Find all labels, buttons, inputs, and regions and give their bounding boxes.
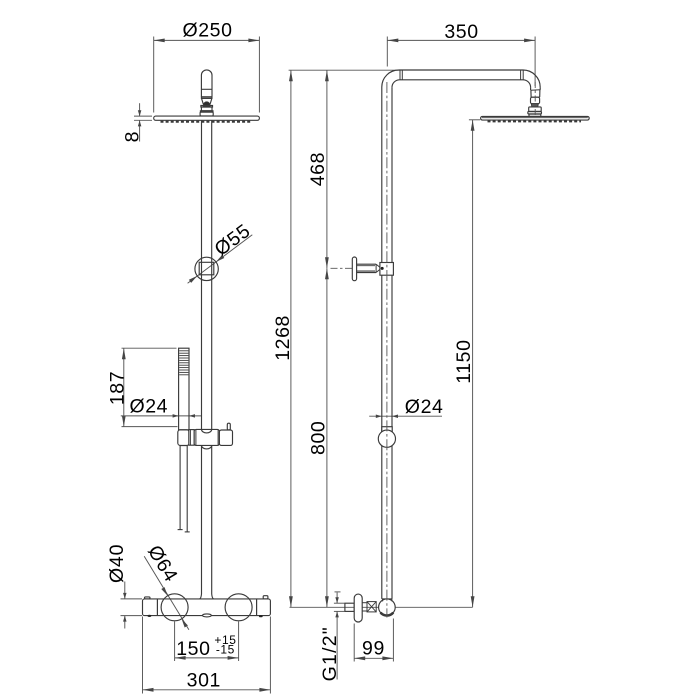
ball joint ball front: [203, 102, 210, 106]
wall arm elbow side: [382, 70, 399, 87]
dimension 99 line with arrows: [354, 657, 393, 659]
wall bracket flange side: [352, 257, 356, 281]
supply ball side: [379, 599, 396, 616]
svg-text:150: 150: [176, 638, 210, 660]
hand shower handle: [179, 348, 189, 430]
svg-text:1150: 1150: [453, 339, 475, 383]
column pipe front: [201, 120, 203, 594]
hand shower cone: [178, 430, 189, 446]
svg-text:468: 468: [307, 152, 329, 186]
svg-text:G1/2": G1/2": [319, 626, 341, 681]
svg-text:-15: -15: [216, 642, 235, 656]
slider knob front: [189, 430, 194, 446]
wall union circle front: [195, 257, 218, 280]
shower arm joint lines right: [520, 70, 522, 80]
shower head plate front: [154, 116, 260, 120]
svg-text:8: 8: [122, 131, 144, 142]
dimension Ø40 arrows: [124, 582, 126, 599]
dimension Ø24 side line with arrows: [369, 415, 442, 417]
extension line at supply centre: [290, 606, 473, 608]
dimension 1268 line with arrows: [290, 70, 292, 607]
svg-text:Ø40: Ø40: [106, 544, 128, 583]
head connector pipe side: [530, 87, 532, 90]
dimension 800 line with arrows: [326, 268, 328, 607]
dimension G1/2 extension lines: [335, 591, 341, 593]
head connector nut side: [529, 107, 542, 112]
supply ball thick bottom arc: [381, 613, 394, 616]
slider bracket inner lines front: [195, 429, 197, 445]
shower head plate side: [481, 116, 590, 120]
dimension Ø40 extension lines: [121, 598, 143, 600]
shower arm joint line front: [201, 88, 212, 90]
head connector ball side: [531, 104, 538, 107]
slider ball side: [378, 430, 395, 447]
ball joint housing front: [202, 97, 212, 99]
dimension G1/2 arrows: [336, 593, 338, 604]
dimension Ø250 line with arrows: [154, 39, 260, 41]
shower arm horizontal side: [399, 69, 523, 71]
slider collar side: [382, 427, 392, 432]
dimension 1150 line with arrows: [472, 120, 474, 608]
mixer left knob: [161, 594, 188, 621]
dimension 1150 extension line: [469, 119, 480, 121]
wall union collar front: [199, 262, 214, 275]
svg-text:800: 800: [308, 421, 330, 455]
dimension 8 arrows: [139, 103, 141, 116]
svg-text:Ø24: Ø24: [405, 396, 444, 418]
shower arm right elbow side: [523, 70, 540, 87]
head connector centreline: [534, 82, 536, 116]
mixer bottom lens: [203, 614, 212, 617]
dimension 301 line with arrows: [143, 689, 271, 691]
mixer right dot: [259, 615, 263, 617]
head connector ring side: [531, 97, 540, 104]
svg-text:1268: 1268: [272, 315, 294, 361]
column pipe flare front: [200, 594, 202, 599]
extension line at pipe top: [289, 69, 400, 71]
shower head nozzles side: [488, 120, 582, 122]
head connector collar side: [529, 114, 541, 116]
wall bracket tube side: [357, 263, 377, 265]
dimension 99 extension lines: [353, 624, 355, 662]
mixer right button: [263, 596, 268, 599]
ball joint cylinder front: [201, 107, 212, 111]
dimension Ø55 leader line: [188, 235, 253, 283]
dimension 150 line with arrows: [175, 657, 239, 659]
supply ball pipe stubs side: [382, 599, 384, 602]
slider hook pin front: [227, 423, 230, 430]
shower arm front: [201, 70, 212, 97]
svg-text:99: 99: [362, 637, 385, 659]
dimension 301 extension lines: [142, 617, 144, 694]
hand shower spray face hatch: [179, 350, 188, 352]
wall bracket pivot dot side: [381, 267, 384, 270]
mixer left dot: [148, 615, 152, 617]
svg-text:187: 187: [106, 371, 128, 405]
slider bracket pipe dip front: [202, 429, 212, 433]
shower head plate inner line side: [482, 117, 588, 119]
dimension 150 extension lines: [174, 622, 176, 662]
slider bracket body front: [194, 429, 219, 445]
ball joint ring front: [200, 111, 213, 112]
dimension 187 line with arrows: [123, 348, 125, 426]
supply neck lines side: [362, 602, 367, 604]
mixer left button: [145, 597, 151, 599]
ball joint base front: [200, 112, 213, 116]
mixer body: [143, 599, 271, 616]
mixer right knob: [225, 594, 252, 621]
slider bracket pipe bulge front: [202, 445, 212, 449]
head connector base ring side: [528, 112, 542, 115]
dimension 468 line with arrows: [326, 70, 328, 268]
mixer end cap lines: [156, 599, 158, 616]
dimension 350 line with arrows: [387, 39, 535, 41]
slider knob line front: [189, 430, 191, 446]
wall bracket block side: [380, 263, 394, 276]
shower head nozzles front: [161, 121, 251, 123]
wall bracket centreline: [331, 267, 353, 269]
wall arm vertical pipe side: [381, 87, 383, 599]
ball joint flange front: [201, 106, 213, 108]
shower arm joint lines left: [399, 70, 401, 80]
supply flange side: [354, 594, 362, 622]
dimension Ø24 front line with arrows: [121, 415, 202, 417]
dimension 187 extension lines: [122, 347, 177, 349]
column pipe centreline side: [386, 82, 388, 618]
svg-text:350: 350: [444, 21, 478, 43]
supply nipple side: [345, 603, 354, 611]
dimension Ø64 leader line: [144, 556, 189, 630]
dimension Ø250 extension lines: [153, 37, 155, 113]
hand shower hose end ticks: [178, 529, 183, 531]
head connector segment2 side: [530, 90, 532, 97]
svg-text:301: 301: [187, 669, 221, 691]
supply pipe end cap side: [382, 598, 392, 600]
svg-text:Ø24: Ø24: [129, 396, 168, 418]
hand shower hose: [179, 446, 181, 530]
supply cone side: [367, 602, 376, 612]
dimension 8 extension lines: [134, 115, 152, 117]
svg-text:Ø250: Ø250: [182, 20, 232, 42]
slider hook front: [219, 430, 232, 445]
dimension 350 extension lines: [386, 37, 388, 67]
